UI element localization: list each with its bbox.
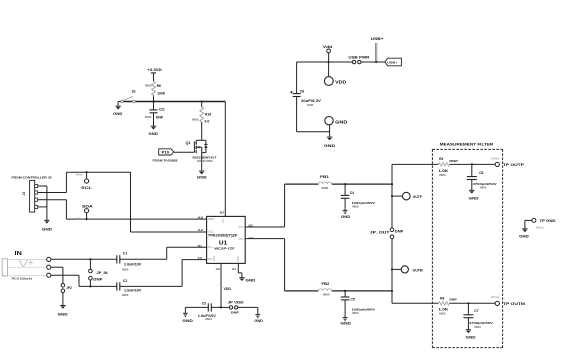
wire J1 ground pins [46,186,48,220]
svg-text:R16: R16 [205,113,211,117]
svg-text:J1: J1 [22,192,26,196]
svg-text:SOT23-DW3: SOT23-DW3 [197,159,213,163]
svg-text:VDD: VDD [335,80,347,85]
resistor R16 0.0 [201,100,203,102]
ground C21 [151,125,156,127]
svg-text:DNP: DNP [449,159,458,163]
test point VDD [324,77,333,86]
svg-text:SCL: SCL [208,230,215,234]
svg-text:C4: C4 [350,191,354,195]
capacitor C5 1000pF [344,290,346,292]
wire to U1 EN pin [224,102,226,217]
svg-text:100K: 100K [157,92,166,96]
ground JP2 [60,305,65,307]
ground U1 [239,277,244,279]
svg-text:SDA: SDA [208,217,215,221]
svg-text:USB+: USB+ [387,61,397,65]
capacitor C7 4700pF [467,302,469,304]
svg-text:TP OUTM: TP OUTM [503,302,525,306]
svg-text:0805: 0805 [321,186,328,190]
svg-text:GND: GND [246,278,256,282]
svg-text:IN: IN [15,251,22,257]
svg-text:SDA: SDA [82,204,93,209]
svg-text:GND: GND [42,227,53,231]
wire tip to C1 [51,258,117,260]
capacitor C3 1.0uF [185,306,208,308]
svg-text:White: White [75,216,83,220]
svg-text:OUTP: OUTP [413,195,423,199]
svg-text:DNP: DNP [231,310,239,314]
svg-text:1.0uF/10V: 1.0uF/10V [124,262,142,266]
node input tip [47,257,51,261]
svg-text:Black: Black [536,226,545,230]
svg-text:USB PWR: USB PWR [348,56,370,60]
svg-text:0603: 0603 [145,115,152,119]
svg-text:R3: R3 [440,297,444,301]
svg-text:JP VDD: JP VDD [228,301,245,305]
wire SCL net [47,192,67,194]
svg-text:C2: C2 [216,267,221,271]
svg-text:VDD: VDD [213,256,216,261]
svg-text:C7: C7 [474,309,478,313]
ground Q1 [199,170,204,172]
jack RCA (Black) [2,259,7,276]
ground C5 [343,317,348,319]
jumper JP2 [61,284,65,288]
svg-text:1206: 1206 [307,103,314,107]
jumper USB PWR [352,60,355,63]
ground JP VDD [255,314,260,316]
svg-text:GND: GND [197,175,207,179]
svg-text:C8: C8 [300,90,304,94]
svg-text:SCL: SCL [81,185,93,190]
capacitor C8 10uF [296,62,298,94]
svg-text:S1: S1 [132,89,136,93]
wire U1 VDD pin [220,263,222,307]
svg-text:B2: B2 [220,210,225,214]
ground TP GND [522,228,527,230]
svg-text:Vdd: Vdd [323,45,333,49]
svg-text:MEASUREMENT FILTER: MEASUREMENT FILTER [440,142,494,146]
svg-text:RCA (Black): RCA (Black) [12,277,32,281]
svg-text:GND: GND [341,215,351,219]
svg-text:FB2: FB2 [322,282,330,286]
svg-text:JP_OUT: JP_OUT [370,230,390,234]
svg-text:C1: C1 [123,252,127,256]
jumper JP_IN DNP [89,259,91,269]
svg-text:GND: GND [324,144,336,148]
svg-text:0603: 0603 [122,267,129,271]
svg-text:0603: 0603 [205,317,212,321]
wire ring to JP2 [51,266,63,268]
svg-text:DNP: DNP [156,116,164,120]
svg-text:White: White [491,295,500,299]
svg-text:GND: GND [182,319,193,323]
svg-text:0603: 0603 [474,325,481,329]
wire U1 GND pin [237,263,239,273]
svg-text:A1: A1 [232,267,237,271]
svg-text:0603: 0603 [122,293,129,297]
svg-text:WCSP-YZF: WCSP-YZF [214,247,235,251]
svg-text:EN: EN [222,219,225,223]
svg-text:BSS138DWYXCT: BSS138DWYXCT [193,155,217,159]
ground C7 [466,329,471,331]
svg-text:GND: GND [469,196,480,200]
svg-text:GND: GND [237,256,240,262]
svg-text:0603: 0603 [352,311,359,315]
ground C4 [343,209,348,211]
flag USB+ [385,58,402,66]
svg-text:DNP: DNP [449,298,456,302]
box MEASUREMENT FILTER [432,148,502,150]
svg-text:GND: GND [254,319,263,323]
svg-text:0603: 0603 [480,186,487,190]
plug P10 FROM TAS5828 [159,149,174,155]
svg-text:0603: 0603 [352,204,359,208]
capacitor C21 DNP [153,102,155,110]
resistor R6 100K [152,81,156,95]
wire C8 to ground [297,131,330,133]
svg-text:Q1: Q1 [186,141,191,145]
test point OUTM [392,268,401,270]
svg-text:OUT+: OUT+ [238,225,244,229]
wire output M node [391,239,393,304]
svg-text:+3.3VD: +3.3VD [147,68,162,72]
wire main shutdown net [121,101,225,103]
ground C3 [184,307,186,313]
ferrite bead FB1 [285,183,319,185]
svg-text:C2: C2 [123,279,127,283]
capacitor C4 1000pF [344,183,346,185]
svg-text:White: White [76,172,84,176]
svg-text:DNP: DNP [395,229,405,233]
svg-text:OUT-: OUT- [238,237,244,241]
wire sleeve to C2 [51,274,79,276]
wire output P node [391,164,393,228]
svg-text:USB+: USB+ [371,37,384,41]
test point TP GND [532,218,536,222]
svg-text:R2: R2 [439,157,443,161]
svg-text:JP_IN: JP_IN [96,271,108,275]
wire U1 outputs [245,226,284,228]
svg-text:A2: A2 [197,228,203,232]
svg-text:FB1: FB1 [320,175,329,179]
svg-text:0603: 0603 [145,84,152,88]
wire SDA net [47,199,67,201]
svg-text:FROM CONTROLLER J5: FROM CONTROLLER J5 [12,176,52,180]
svg-text:4700pfd/50V: 4700pfd/50V [469,321,494,325]
test point OUTP [392,195,403,197]
svg-text:GND: GND [466,336,477,340]
svg-text:GND: GND [149,132,159,136]
svg-text:FROM TAS5828: FROM TAS5828 [153,159,178,163]
svg-text:GND: GND [335,120,348,125]
svg-text:C3: C3 [249,236,254,240]
wire Q1 source to ground [201,147,203,171]
op-amp U1 TPA2026D [207,216,246,263]
test point GND [325,117,333,125]
svg-text:0805: 0805 [323,292,330,296]
svg-text:C5: C5 [350,297,354,301]
svg-text:JP2: JP2 [66,286,72,290]
ground C6 [469,189,474,191]
svg-text:1.0uF/10V: 1.0uF/10V [124,289,142,293]
wire S1 to ground [118,101,121,103]
svg-text:TPA2026D(Y)ZF: TPA2026D(Y)ZF [208,234,238,238]
ground USB section [329,132,331,137]
svg-text:GND: GND [519,235,529,239]
ground S1 [115,105,120,107]
capacitor C6 4700pF [471,163,473,165]
svg-text:TP OUTP: TP OUTP [503,163,524,167]
wire VDD net [211,306,229,308]
wire to measurement filter bottom [392,302,438,304]
svg-text:A0: A0 [197,216,203,220]
wire C2 to IN- [120,285,182,287]
svg-text:R6: R6 [157,84,161,88]
node input sleeve [47,273,51,277]
svg-text:GND: GND [340,322,351,326]
node input ring [47,265,51,269]
wire C1 to IN+ [120,258,167,260]
svg-text:GND: GND [58,312,69,316]
svg-text:White: White [491,156,500,160]
wire USB power rail [297,61,353,63]
svg-text:DNP: DNP [93,278,103,282]
ground J1 [44,219,49,221]
svg-text:0603: 0603 [439,173,446,177]
svg-text:VDD: VDD [224,287,232,291]
svg-text:C21: C21 [159,108,165,112]
svg-text:0603: 0603 [439,312,446,316]
capacitor C1 1.0uF [116,255,118,263]
svg-text:TP GND: TP GND [540,219,556,223]
svg-text:GND: GND [113,112,123,116]
svg-text:0.0: 0.0 [205,119,210,123]
svg-text:OUTM: OUTM [413,269,423,273]
svg-text:C3: C3 [202,301,206,305]
jumper JP_OUT DNP [390,228,394,232]
svg-text:0603: 0603 [192,117,199,121]
svg-text:IN+: IN+ [208,245,214,249]
capacitor C2 1.0uF [116,282,118,290]
svg-text:C6: C6 [479,171,483,175]
wire to measurement filter top [392,163,438,165]
ferrite bead FB2 [285,290,319,292]
svg-text:P10: P10 [162,151,170,155]
